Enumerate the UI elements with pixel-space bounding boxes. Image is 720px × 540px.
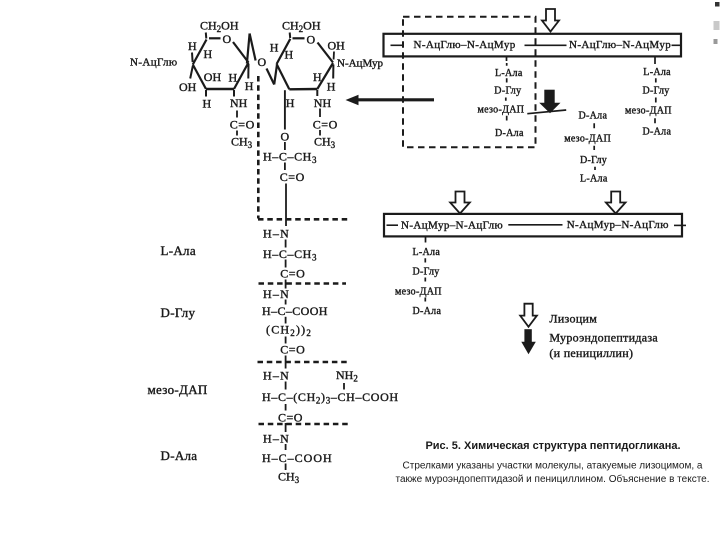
bond lactyl C=O down to peptide N (285, 184, 287, 227)
svg-text:H–N: H–N (263, 226, 290, 240)
svg-text:(CH2))2: (CH2))2 (266, 323, 312, 339)
svg-text:N-АцМур–N-АцГлю: N-АцМур–N-АцГлю (567, 219, 669, 231)
svg-text:Рис. 5. Химическая структура п: Рис. 5. Химическая структура пептидоглик… (425, 440, 680, 452)
svg-text:OH: OH (328, 39, 346, 53)
ring2 bond C2-C3 (289, 88, 317, 91)
bond C to C=O L-Ala (285, 260, 287, 268)
bond O-C lactyl (284, 142, 286, 150)
svg-text:O: O (258, 55, 267, 69)
ring2 bond C1-C2 (317, 63, 333, 89)
box2 middle tie line (508, 224, 562, 226)
svg-text:L-Ала: L-Ала (495, 68, 523, 79)
svg-text:C=O: C=O (280, 267, 305, 281)
svg-text:L-Ала: L-Ала (580, 174, 608, 185)
svg-text:H–C–(CH2)3–CH–COOH: H–C–(CH2)3–CH–COOH (262, 390, 399, 406)
svg-text:D-Глу: D-Глу (494, 86, 521, 97)
svg-text:H: H (245, 79, 254, 93)
bond C to C=O meso-DAP (285, 404, 287, 411)
dashed link chain2 (593, 123, 596, 170)
dashed repeat-unit box (403, 17, 536, 148)
svg-text:C=O: C=O (280, 170, 305, 184)
svg-text:Лизоцим: Лизоцим (549, 311, 597, 325)
edge artifact speckle right (714, 21, 720, 30)
open arrow above box1 (542, 9, 559, 32)
bond C to CH2 chain D-Glu (285, 317, 287, 324)
ring1 bond C2-C3 (206, 88, 234, 90)
svg-text:NH: NH (230, 96, 248, 110)
svg-text:H–C–COOH: H–C–COOH (262, 451, 333, 465)
bond N-C meso-DAP (285, 382, 287, 390)
svg-text:H: H (229, 71, 238, 85)
glycan box 2 (384, 214, 682, 237)
svg-text:D-Глу: D-Глу (413, 266, 440, 277)
bond CH2OH to C5 ring1 (205, 33, 208, 39)
dashed bracket horizontal top of peptide (258, 218, 348, 221)
svg-text:D-Ала: D-Ала (579, 110, 608, 121)
ring1 bond C4-C5 (193, 40, 207, 65)
svg-text:мезо-ДАП: мезо-ДАП (625, 105, 672, 116)
big left arrow head (346, 95, 359, 105)
svg-text:H: H (203, 97, 212, 111)
svg-text:C=O: C=O (280, 342, 305, 356)
ring1 bond C3-C4 (193, 65, 206, 90)
bond OH-C1 ring2 (333, 52, 335, 60)
dashed link box2 to chain4 (424, 237, 426, 302)
svg-text:O: O (281, 130, 290, 144)
svg-text:L-Ала: L-Ала (413, 247, 441, 258)
filled arrow at cross-link (539, 90, 560, 114)
svg-text:H: H (270, 41, 279, 55)
glycosidic bond O down (267, 69, 275, 85)
bond C2-NH ring1 (233, 90, 235, 97)
glycan box 1 (384, 34, 682, 57)
svg-text:мезо-ДАП: мезо-ДАП (478, 105, 525, 116)
svg-text:N-АцГлю–N-АцМур: N-АцГлю–N-АцМур (569, 39, 671, 51)
box2 left tie line (387, 224, 399, 226)
svg-text:H: H (285, 48, 294, 62)
svg-text:H–C–COOH: H–C–COOH (262, 304, 328, 318)
legend filled arrow muroendopeptidase (521, 329, 536, 354)
svg-text:мезо-ДАП: мезо-ДАП (395, 287, 442, 298)
svg-text:H: H (327, 80, 336, 94)
svg-text:L-Ала: L-Ала (161, 243, 196, 258)
svg-text:C=O: C=O (230, 118, 255, 132)
bond N-C L-Ala (285, 240, 287, 248)
ring2 bond C4-C5 (277, 39, 291, 64)
svg-text:Муроэндопептидаза: Муроэндопептидаза (549, 331, 658, 345)
edge artifact top right (715, 2, 720, 7)
bond C-CH3 acetyl ring1 (236, 131, 238, 136)
bond NH2-CH meso-DAP (343, 383, 345, 390)
svg-text:D-Глу: D-Глу (643, 86, 670, 97)
svg-text:H–C–CH3: H–C–CH3 (263, 247, 317, 263)
open arrow above box2 right (606, 192, 626, 214)
bond C4-OH ring1 (190, 66, 193, 79)
svg-text:мезо-ДАП: мезо-ДАП (564, 133, 611, 144)
svg-text:D-Ала: D-Ала (161, 448, 198, 463)
box1 right tie line (672, 44, 682, 46)
open arrow above box2 left (450, 192, 470, 214)
dashed separator L-Ala / D-Glu (259, 282, 347, 285)
svg-text:H: H (286, 96, 295, 110)
dashed bracket vertical between rings (257, 76, 260, 219)
bond C=O to next N (285, 356, 287, 369)
svg-text:N-АцМур: N-АцМур (337, 58, 383, 70)
svg-text:N-АцГлю: N-АцГлю (130, 57, 177, 69)
svg-text:H–N: H–N (263, 432, 290, 446)
bond C3-H ring1 (205, 90, 207, 97)
svg-text:H–N: H–N (263, 369, 290, 383)
bond C1-H ring2 (332, 65, 334, 79)
svg-text:D-Ала: D-Ала (413, 306, 442, 317)
svg-text:O: O (223, 32, 232, 46)
svg-text:N-АцГлю–N-АцМур: N-АцГлю–N-АцМур (414, 39, 516, 51)
bond C1-H ring1 (247, 64, 249, 79)
svg-text:NH: NH (314, 96, 332, 110)
box2 right tie line (674, 224, 686, 226)
svg-text:H: H (313, 70, 322, 84)
ring1 bond C1-C2 (234, 63, 249, 90)
bond CH2 to C=O D-Glu (285, 337, 287, 344)
bond NH-acetylC ring2 (319, 109, 321, 118)
ring1 bond O-C1 (233, 42, 249, 63)
box1 left tie line (391, 44, 403, 46)
dashed separator D-Glu / meso-DAP (258, 361, 351, 364)
svg-text:мезо-ДАП: мезо-ДАП (148, 382, 208, 397)
svg-text:(и пенициллин): (и пенициллин) (549, 346, 633, 360)
bond NH-acetylC ring1 (236, 111, 238, 118)
ring2 bond C5-O (293, 37, 305, 39)
svg-text:H–N: H–N (263, 287, 290, 301)
svg-text:L-Ала: L-Ала (643, 67, 671, 78)
bond C-CH3 D-Ala (285, 464, 287, 471)
ring2 bond C3-C4 (277, 64, 290, 89)
edge artifact mid right (714, 39, 718, 44)
legend open arrow lysozyme (520, 304, 537, 327)
svg-text:D-Ала: D-Ала (495, 128, 524, 139)
svg-text:H–C–CH3: H–C–CH3 (263, 149, 317, 165)
svg-text:OH: OH (179, 80, 197, 94)
dashed link box1 to right chain (654, 58, 657, 124)
bond CH2OH to C5 ring2 (289, 33, 292, 39)
svg-text:C=O: C=O (278, 411, 303, 425)
bond C2-NH ring2 (316, 90, 318, 96)
ring1 bond C5-O (209, 37, 221, 39)
box1 middle tie line (525, 44, 567, 46)
svg-text:D-Глу: D-Глу (580, 155, 607, 166)
bond H-C4 ring1 (191, 53, 194, 63)
ring2 bond O-C1 (318, 43, 334, 63)
cross-link line meso-DAP to D-Ala (527, 110, 566, 114)
bond N-C D-Ala (285, 444, 287, 450)
svg-text:D-Ала: D-Ала (643, 126, 672, 137)
svg-text:H: H (188, 39, 197, 53)
svg-text:H: H (204, 47, 213, 61)
svg-text:Стрелками указаны участки моле: Стрелками указаны участки молекулы, атак… (403, 460, 703, 471)
big left arrow shaft (356, 98, 434, 101)
bond N-C D-Glu (285, 300, 287, 305)
glycosidic bond peak down to O (250, 34, 256, 61)
bond C3 ring2 to lactyl O (284, 90, 286, 129)
bond C=O to next N (285, 423, 287, 432)
bond C to C=O lactyl (284, 163, 286, 171)
svg-text:C=O: C=O (313, 118, 338, 132)
svg-text:N-АцМур–N-АцГлю: N-АцМур–N-АцГлю (401, 220, 503, 232)
dashed separator meso-DAP / D-Ala (259, 423, 351, 426)
svg-text:O: O (307, 33, 316, 47)
bond C-CH3 acetyl ring2 (319, 130, 321, 136)
glycosidic bond up to C4 ring2 (274, 65, 277, 85)
dashed link box1 to L-Ala left chain (505, 57, 508, 121)
svg-text:также муроэндопептидазой и пен: также муроэндопептидазой и пенициллином.… (395, 473, 709, 485)
svg-text:D-Глу: D-Глу (161, 305, 196, 320)
glycosidic bond C1 up-peak (247, 34, 250, 64)
svg-text:OH: OH (204, 70, 222, 84)
bond C=O to next N (285, 280, 287, 289)
